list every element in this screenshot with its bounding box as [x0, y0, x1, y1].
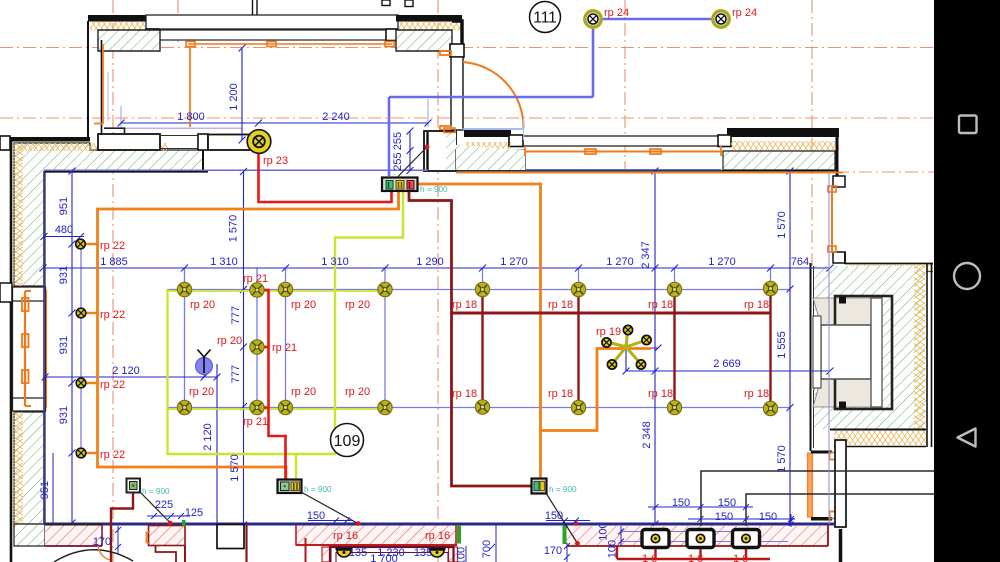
- axis line C horizontal right: [836, 171, 934, 173]
- lamp rp23: [247, 130, 271, 154]
- interior boundary upper room: [104, 127, 126, 129]
- svg-text:1 270: 1 270: [606, 256, 634, 268]
- svg-text:rp 20: rp 20: [345, 299, 370, 311]
- interior boundary violet window wall: [525, 169, 721, 171]
- sconce right: [429, 549, 446, 557]
- svg-text:1 270: 1 270: [500, 256, 528, 268]
- interior boundary violet top: [44, 169, 428, 171]
- wire orange feed to box3: [417, 184, 541, 480]
- svg-text:225: 225: [155, 499, 173, 511]
- lamp alignment row 1: [167, 289, 790, 291]
- svg-text:rp 18: rp 18: [452, 388, 477, 400]
- svg-text:rp 18: rp 18: [548, 388, 573, 400]
- wall band D: [567, 526, 829, 546]
- nav square icon: [959, 116, 977, 134]
- fireplace niche left wall: [810, 263, 812, 451]
- pier right of rp23 opening: [424, 131, 456, 171]
- svg-text:1 270: 1 270: [708, 256, 736, 268]
- wire orange chandelier branch: [541, 349, 652, 431]
- svg-text:rp 21: rp 21: [243, 416, 268, 428]
- svg-text:rp 18: rp 18: [744, 299, 769, 311]
- dimension top row 1800/2240: [108, 45, 432, 144]
- lamp rp18 r2c3: [667, 400, 681, 414]
- room tag 111: [530, 2, 561, 33]
- svg-text:255: 255: [392, 152, 404, 170]
- left vertical dimension chain 951/931: [53, 168, 76, 527]
- hatched pier above window-wall left (niche): [456, 145, 525, 171]
- door arc bottom-left: [54, 550, 133, 562]
- vertical dimension x=655 (2347/2348): [652, 168, 659, 528]
- lamp rp22 4: [76, 448, 86, 458]
- svg-text:100: 100: [607, 540, 619, 558]
- switch alignment mark: [199, 372, 204, 377]
- svg-text:2 347: 2 347: [640, 241, 652, 269]
- svg-text:150: 150: [307, 510, 325, 522]
- wire violet group rp24: [389, 19, 713, 176]
- lamp rp18 r1c3: [667, 282, 681, 296]
- svg-text:100: 100: [598, 522, 610, 540]
- left wall insulation zigzag vertical: [13, 143, 23, 286]
- wall band A bottom-left: [45, 526, 102, 546]
- svg-text:135: 135: [414, 547, 432, 559]
- dimension 2669: [623, 345, 834, 375]
- svg-text:125: 125: [185, 507, 203, 519]
- wire dark red column 3: [673, 290, 675, 408]
- chandelier rp19: [602, 325, 651, 369]
- svg-text:150: 150: [672, 497, 690, 509]
- lamp rp22 3: [76, 378, 86, 388]
- lamp rp20 r2c3: [378, 400, 392, 414]
- door arc room 111: [463, 62, 524, 128]
- leader box3: [546, 493, 578, 544]
- svg-text:2 669: 2 669: [713, 358, 741, 370]
- wire dark red column 4: [769, 289, 771, 409]
- window divider blocks right wall: [509, 135, 523, 147]
- lamp rp18 r2c2: [571, 400, 585, 414]
- wire lime rp20 loop: [168, 191, 404, 454]
- lamp rp20 r1c2: [278, 282, 292, 296]
- svg-text:2 120: 2 120: [202, 423, 214, 451]
- lamp rp18 r1c1: [475, 282, 489, 296]
- niche bottom wall: [830, 429, 926, 431]
- niche door bottom-right assembly: [808, 453, 813, 517]
- svg-text:931: 931: [58, 406, 70, 424]
- svg-text:150: 150: [759, 511, 777, 523]
- top-right window wall outer edge: [464, 130, 511, 137]
- wire lime row2: [168, 408, 386, 410]
- right door jamb top: [833, 176, 845, 187]
- wire orange stub lamp rp22-4: [85, 452, 98, 454]
- right vertical dimension chain 1570/1555: [787, 168, 794, 529]
- svg-text:1 700: 1 700: [370, 553, 398, 562]
- lamp rp24 left: [585, 11, 601, 27]
- interior boundary violet left: [43, 171, 45, 524]
- svg-text:rp 20: rp 20: [217, 335, 242, 347]
- svg-text:1 310: 1 310: [321, 256, 349, 268]
- svg-text:h = 900: h = 900: [549, 485, 577, 494]
- left wall hatch upper: [14, 143, 203, 286]
- right outer wall above door: [836, 130, 839, 176]
- bottom dims: [115, 504, 795, 562]
- junction box1: [127, 479, 141, 493]
- svg-text:109: 109: [334, 433, 361, 450]
- svg-text:170: 170: [544, 545, 562, 557]
- niche right insulation: [914, 266, 925, 429]
- lamp rp20 r2c1: [177, 400, 191, 414]
- left wall top corner thick bar: [10, 137, 90, 142]
- svg-text:rp 22: rp 22: [100, 309, 125, 321]
- svg-text:700: 700: [481, 540, 493, 558]
- sconce left: [336, 549, 353, 557]
- svg-text:1 570: 1 570: [229, 454, 241, 482]
- lamp rp20 r1c1: [177, 282, 191, 296]
- svg-text:rp 21: rp 21: [243, 273, 268, 285]
- wire orange upper room: [94, 44, 190, 127]
- switch block SB (3-gang): [382, 178, 418, 192]
- lamp rp18 r2c1: [475, 400, 489, 414]
- lamp alignment row 2: [167, 407, 790, 409]
- fireplace symbol: [813, 296, 892, 409]
- svg-text:1 6: 1 6: [642, 553, 657, 562]
- svg-text:777: 777: [230, 365, 242, 383]
- top edge mark b: [405, 0, 413, 7]
- svg-text:rp 16: rp 16: [333, 530, 358, 542]
- wire orange along window wall: [456, 172, 843, 174]
- svg-text:rp 19: rp 19: [596, 326, 621, 338]
- leader box2: [301, 492, 357, 523]
- wire orange main loop rp22: [98, 191, 399, 480]
- svg-text:rp 20: rp 20: [291, 299, 316, 311]
- left wall hatch lower: [14, 412, 45, 524]
- left window orange frame: [22, 290, 47, 408]
- wire red stub rp21 bottom: [263, 406, 269, 409]
- wall step edge: [202, 150, 204, 171]
- axis line 2 vertical short: [177, 0, 179, 44]
- inner face line window wall: [456, 170, 835, 172]
- hatched pier window-wall right: [723, 151, 835, 170]
- svg-text:1 6: 1 6: [733, 553, 748, 562]
- svg-text:rp 16: rp 16: [425, 530, 450, 542]
- wall insulation zigzag top-right: [399, 22, 461, 31]
- svg-text:1 570: 1 570: [776, 211, 788, 239]
- svg-text:rp 24: rp 24: [732, 7, 757, 19]
- pier C1: [217, 525, 244, 549]
- svg-text:170: 170: [93, 536, 111, 548]
- lamp rp20/rp21 middle: [250, 340, 264, 354]
- thin wall band below upper window: [98, 134, 160, 150]
- lamp rp22 1: [76, 239, 86, 249]
- svg-text:2 120: 2 120: [112, 365, 140, 377]
- svg-text:1 800: 1 800: [177, 111, 205, 123]
- orange window sill line top wall: [186, 42, 394, 47]
- lamp rp20 r2c2: [278, 400, 292, 414]
- niche door frame orange left: [813, 330, 815, 390]
- middle vertical dimension chain 1570/777: [240, 168, 247, 529]
- wire red rp23: [259, 150, 392, 202]
- svg-text:rp 18: rp 18: [648, 299, 673, 311]
- svg-text:rp 22: rp 22: [100, 379, 125, 391]
- svg-text:1 570: 1 570: [776, 445, 788, 473]
- axis line 4 vertical: [624, 0, 626, 170]
- svg-text:1 310: 1 310: [210, 256, 238, 268]
- svg-text:rp 22: rp 22: [100, 240, 125, 252]
- svg-text:100: 100: [456, 547, 468, 562]
- svg-text:rp 21: rp 21: [272, 342, 297, 354]
- wire dark red pier drop: [245, 524, 247, 562]
- wall band C: [296, 526, 457, 546]
- svg-text:1 200: 1 200: [228, 83, 240, 111]
- door orange small arc: [98, 546, 110, 560]
- dim 1200 vertical line: [241, 48, 243, 140]
- inner face line top-left wall: [44, 171, 208, 173]
- svg-text:rp 18: rp 18: [648, 388, 673, 400]
- interior boundary bottom navy: [44, 523, 836, 526]
- leader switch block: [398, 148, 427, 177]
- axis line B horizontal: [0, 117, 934, 119]
- left wall outer cap at window: [0, 283, 12, 302]
- right door jamb bottom: [833, 252, 845, 263]
- dimension 480: [41, 233, 85, 240]
- nav circle icon: [954, 263, 980, 289]
- wire lime row1: [168, 290, 386, 292]
- left wall hatch bottom stub: [14, 524, 45, 546]
- right door orange leaf: [831, 187, 833, 252]
- room C outline below: [330, 547, 454, 562]
- svg-text:1 885: 1 885: [100, 256, 128, 268]
- wire lime to box2: [295, 454, 297, 480]
- svg-text:135: 135: [349, 547, 367, 559]
- wire orange stub lamp rp22-2: [85, 312, 98, 314]
- wire dark red column 2: [577, 290, 579, 408]
- lamp rp18 r1c2: [571, 282, 585, 296]
- niche outer wall right double: [926, 263, 928, 447]
- nav back triangle icon: [958, 429, 976, 447]
- wire red bottom bus: [617, 546, 770, 559]
- lamp rp21 r2: [250, 400, 264, 414]
- junction box2: [278, 480, 302, 494]
- wall top outer band right pier: [396, 15, 462, 22]
- svg-text:2 348: 2 348: [641, 421, 653, 449]
- svg-text:150: 150: [715, 511, 733, 523]
- axis line 1 vertical: [112, 0, 114, 562]
- svg-text:rp 20: rp 20: [189, 386, 214, 398]
- axis line 5 vertical: [811, 0, 813, 268]
- switch leg lines to right room: [701, 471, 934, 528]
- lamp rp18 r2c4: [763, 401, 777, 415]
- svg-text:h = 900: h = 900: [420, 185, 448, 194]
- svg-text:rp 24: rp 24: [604, 7, 629, 19]
- wire orange stub lamp rp22-3: [85, 382, 98, 384]
- top edge mark a: [382, 0, 390, 6]
- hatched pier window-wall left: [456, 150, 525, 169]
- room tag 109: [331, 424, 364, 457]
- svg-text:111: 111: [533, 10, 557, 27]
- hatched pier top-left: [98, 30, 160, 51]
- svg-text:rp 18: rp 18: [744, 388, 769, 400]
- wall top outer band left pier: [88, 15, 146, 22]
- svg-text:2 240: 2 240: [322, 111, 350, 123]
- thin wall left of lamp rp23: [208, 135, 256, 151]
- extension line right of room: [828, 171, 830, 524]
- niche top wall double line: [845, 263, 933, 265]
- door threshold line: [462, 128, 523, 130]
- svg-text:951: 951: [58, 197, 70, 215]
- svg-text:1 555: 1 555: [776, 331, 788, 359]
- dimension main row y=268: [40, 265, 834, 272]
- left wall zigzag horizontal top: [18, 143, 168, 151]
- switch symbol S1: [196, 350, 213, 375]
- svg-text:rp 18: rp 18: [452, 299, 477, 311]
- svg-text:1 290: 1 290: [416, 256, 444, 268]
- svg-text:764: 764: [791, 256, 809, 268]
- window band top wall: [146, 30, 396, 40]
- zigzag right wall bands: [466, 142, 511, 151]
- lamp rp21 r1: [250, 283, 264, 297]
- wire orange stub lamp rp22-1: [85, 243, 98, 245]
- svg-text:777: 777: [230, 306, 242, 324]
- svg-text:150: 150: [545, 510, 563, 522]
- lamp rp20 r1c3: [378, 282, 392, 296]
- svg-text:rp 20: rp 20: [190, 299, 215, 311]
- wire red stub rp21 mid: [263, 346, 269, 349]
- top structure stub at x=252: [252, 0, 254, 15]
- svg-text:150: 150: [718, 497, 736, 509]
- android navigation bar: [934, 0, 1000, 562]
- wall B partition: [149, 526, 186, 546]
- wire red rp21 chain: [263, 290, 286, 480]
- leader box1: [139, 491, 170, 523]
- spotlight box 3: [733, 530, 760, 548]
- svg-text:931: 931: [58, 266, 70, 284]
- window orange frame right wall: [525, 146, 721, 156]
- lamp rp22 2: [76, 308, 86, 318]
- svg-text:h = 900: h = 900: [142, 487, 170, 496]
- svg-text:931: 931: [58, 336, 70, 354]
- spotlight box 1: [642, 530, 669, 548]
- orange window frame clip top-right: [440, 51, 451, 55]
- wall insulation zigzag top-left: [90, 22, 145, 31]
- left wall window opening: [13, 287, 46, 411]
- axis line A horizontal: [0, 47, 934, 49]
- green jamb bars: [321, 525, 325, 544]
- window divider block left: [146, 29, 159, 41]
- lamp rp18 r1c4: [763, 281, 777, 295]
- lamp rp24 right: [713, 11, 729, 27]
- svg-text:rp 18: rp 18: [548, 299, 573, 311]
- junction box3: [532, 479, 547, 494]
- svg-text:480: 480: [55, 224, 73, 236]
- svg-text:rp 20: rp 20: [345, 386, 370, 398]
- fireplace niche hatch: [814, 266, 926, 429]
- left wall outer edge: [10, 140, 13, 562]
- svg-text:rp 22: rp 22: [100, 449, 125, 461]
- dimension 2120 horizontal: [42, 364, 221, 525]
- wall top outer thin band (window head): [146, 15, 398, 29]
- axis line 3 vertical: [437, 0, 439, 562]
- svg-text:255: 255: [392, 132, 404, 150]
- left upper pier double line: [87, 21, 89, 140]
- svg-text:1 6: 1 6: [688, 553, 703, 562]
- dimension 255 255: [389, 110, 414, 174]
- wire dark red feed: [409, 191, 532, 486]
- wire red door drop: [305, 538, 307, 562]
- svg-text:951: 951: [39, 481, 51, 499]
- spotlight box 2: [687, 530, 714, 548]
- wire dark red from box1: [111, 492, 133, 562]
- wire dark red rp18 branch: [452, 312, 771, 315]
- room C side wall stubs: [322, 547, 331, 562]
- window divider block right: [386, 29, 397, 41]
- svg-text:1 570: 1 570: [228, 215, 240, 243]
- wire dark red column 1: [481, 290, 483, 408]
- svg-text:rp 23: rp 23: [263, 155, 288, 167]
- thin blue lines through band D: [621, 531, 758, 533]
- lamp column lines: [81, 239, 771, 457]
- left outer wall cap: [0, 136, 10, 150]
- hatched pier top-right: [396, 30, 452, 51]
- top-right corner pier and door jamb: [452, 21, 462, 44]
- svg-text:h = 900: h = 900: [304, 485, 332, 494]
- svg-text:rp 20: rp 20: [291, 386, 316, 398]
